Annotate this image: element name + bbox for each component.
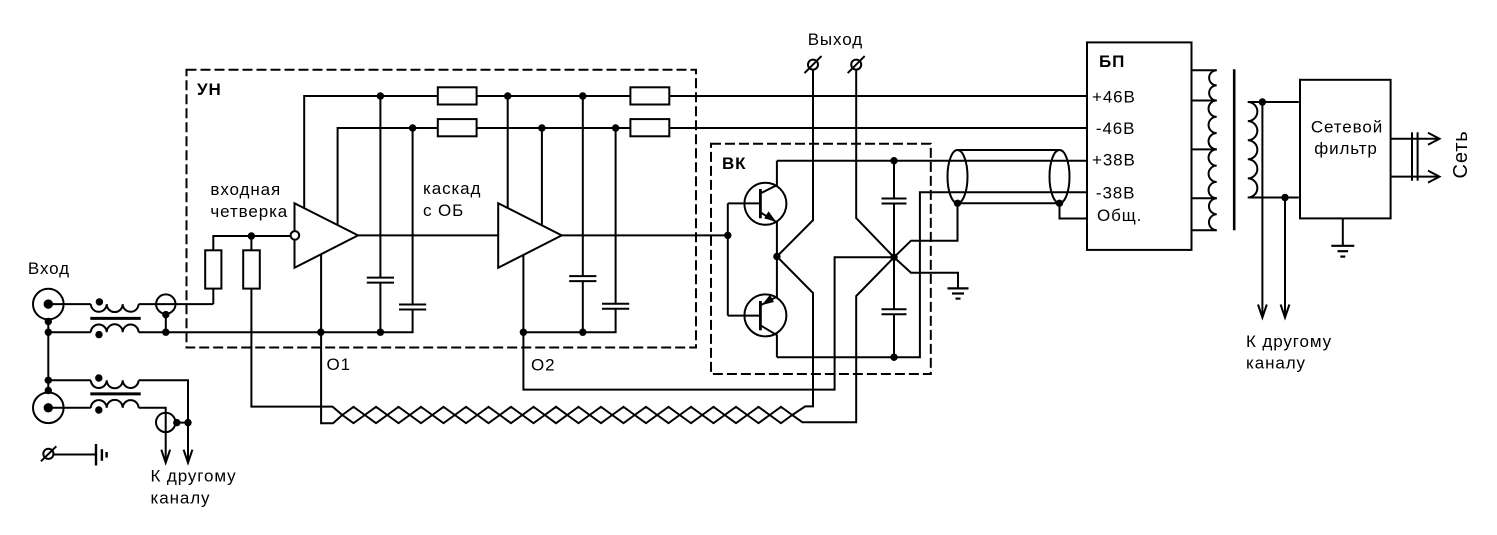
svg-text:К другому: К другому xyxy=(151,467,237,486)
svg-text:ВК: ВК xyxy=(722,154,746,173)
svg-text:Выход: Выход xyxy=(808,30,863,49)
svg-text:БП: БП xyxy=(1099,52,1125,71)
svg-text:входная: входная xyxy=(210,180,281,199)
svg-text:+38В: +38В xyxy=(1092,150,1136,169)
svg-text:каскад: каскад xyxy=(423,179,481,198)
svg-text:К другому: К другому xyxy=(1246,332,1332,351)
svg-text:О1: О1 xyxy=(327,355,351,374)
svg-text:Общ.: Общ. xyxy=(1097,206,1142,225)
svg-text:УН: УН xyxy=(197,80,222,99)
svg-text:-46В: -46В xyxy=(1096,119,1136,138)
svg-text:каналу: каналу xyxy=(1246,354,1306,373)
svg-text:-38В: -38В xyxy=(1096,184,1136,203)
svg-text:О2: О2 xyxy=(531,356,555,375)
svg-text:Сеть: Сеть xyxy=(1450,130,1472,178)
svg-text:Сетевой: Сетевой xyxy=(1311,118,1383,137)
svg-text:четверка: четверка xyxy=(210,202,288,221)
svg-text:фильтр: фильтр xyxy=(1314,139,1378,158)
svg-text:с ОБ: с ОБ xyxy=(423,201,464,220)
svg-text:Вход: Вход xyxy=(28,259,70,278)
svg-text:каналу: каналу xyxy=(151,489,211,508)
svg-text:+46В: +46В xyxy=(1092,88,1136,107)
